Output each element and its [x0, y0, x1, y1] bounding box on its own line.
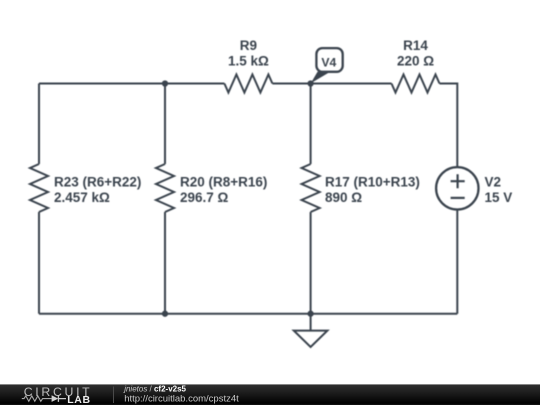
node V4 flag box [316, 48, 342, 72]
resistor R23 zigzag [30, 164, 48, 212]
resistor R14 zigzag [392, 75, 440, 93]
junction dot bottom V4 branch [307, 311, 313, 317]
footer separator [113, 384, 540, 405]
node V4 flag pointer [311, 72, 331, 84]
svg-text:296.7 Ω: 296.7 Ω [180, 190, 229, 205]
resistor R20 zigzag [156, 164, 174, 212]
wire V4 branch upper (node V4 to R17) [310, 84, 312, 165]
svg-text:R9: R9 [240, 38, 257, 53]
wire middle branch upper (node to R20) [164, 84, 166, 165]
svg-text:R20 (R8+R16): R20 (R8+R16) [180, 175, 267, 190]
junction dot top middle [162, 80, 168, 86]
svg-text:220 Ω: 220 Ω [397, 54, 434, 69]
junction dot at V4 node [307, 80, 313, 86]
svg-text:15 V: 15 V [485, 190, 513, 205]
V2 minus sign [451, 197, 465, 199]
svg-text:jnietos / cf2-v2s5: jnietos / cf2-v2s5 [123, 385, 186, 394]
wire left branch lower (R23 to bottom wire) [38, 212, 40, 314]
wire top-middle (R9 to V4 node) [272, 83, 391, 85]
wire middle branch lower (R20 to bottom wire) [164, 212, 166, 314]
V2 plus sign [451, 174, 465, 188]
svg-text:1.5 kΩ: 1.5 kΩ [228, 54, 269, 69]
svg-text:R23 (R6+R22): R23 (R6+R22) [54, 175, 141, 190]
voltage source V2 circle [436, 167, 478, 209]
wire V2 bottom lead [456, 210, 458, 314]
logo diode [52, 395, 59, 402]
svg-text:R14: R14 [403, 38, 428, 53]
footer bar [0, 384, 540, 405]
svg-text:LAB: LAB [67, 394, 90, 405]
svg-text:V4: V4 [321, 56, 336, 70]
ground triangle [294, 331, 328, 347]
resistor R17 zigzag [302, 164, 320, 212]
svg-text:V2: V2 [485, 175, 502, 190]
ground stem [310, 314, 312, 331]
wire V4 branch lower (R17 to bottom wire) [310, 212, 312, 314]
svg-text:890 Ω: 890 Ω [325, 190, 362, 205]
resistor R9 zigzag [224, 75, 272, 93]
svg-text:R17 (R10+R13): R17 (R10+R13) [325, 175, 420, 190]
wire bottom horizontal [39, 313, 457, 315]
CircuitLab logo [0, 384, 100, 405]
wire top-right (R14 to right corner, down to V2) [440, 84, 458, 168]
svg-text:http://circuitlab.com/cpstz4t: http://circuitlab.com/cpstz4t [124, 394, 239, 405]
svg-text:2.457 kΩ: 2.457 kΩ [54, 190, 110, 205]
junction dot bottom middle [162, 311, 168, 317]
wire top-left horizontal (left corner to R9) [39, 83, 224, 85]
logo resistor zigzag [22, 396, 52, 401]
wire left branch upper (corner to R23) [38, 84, 40, 165]
